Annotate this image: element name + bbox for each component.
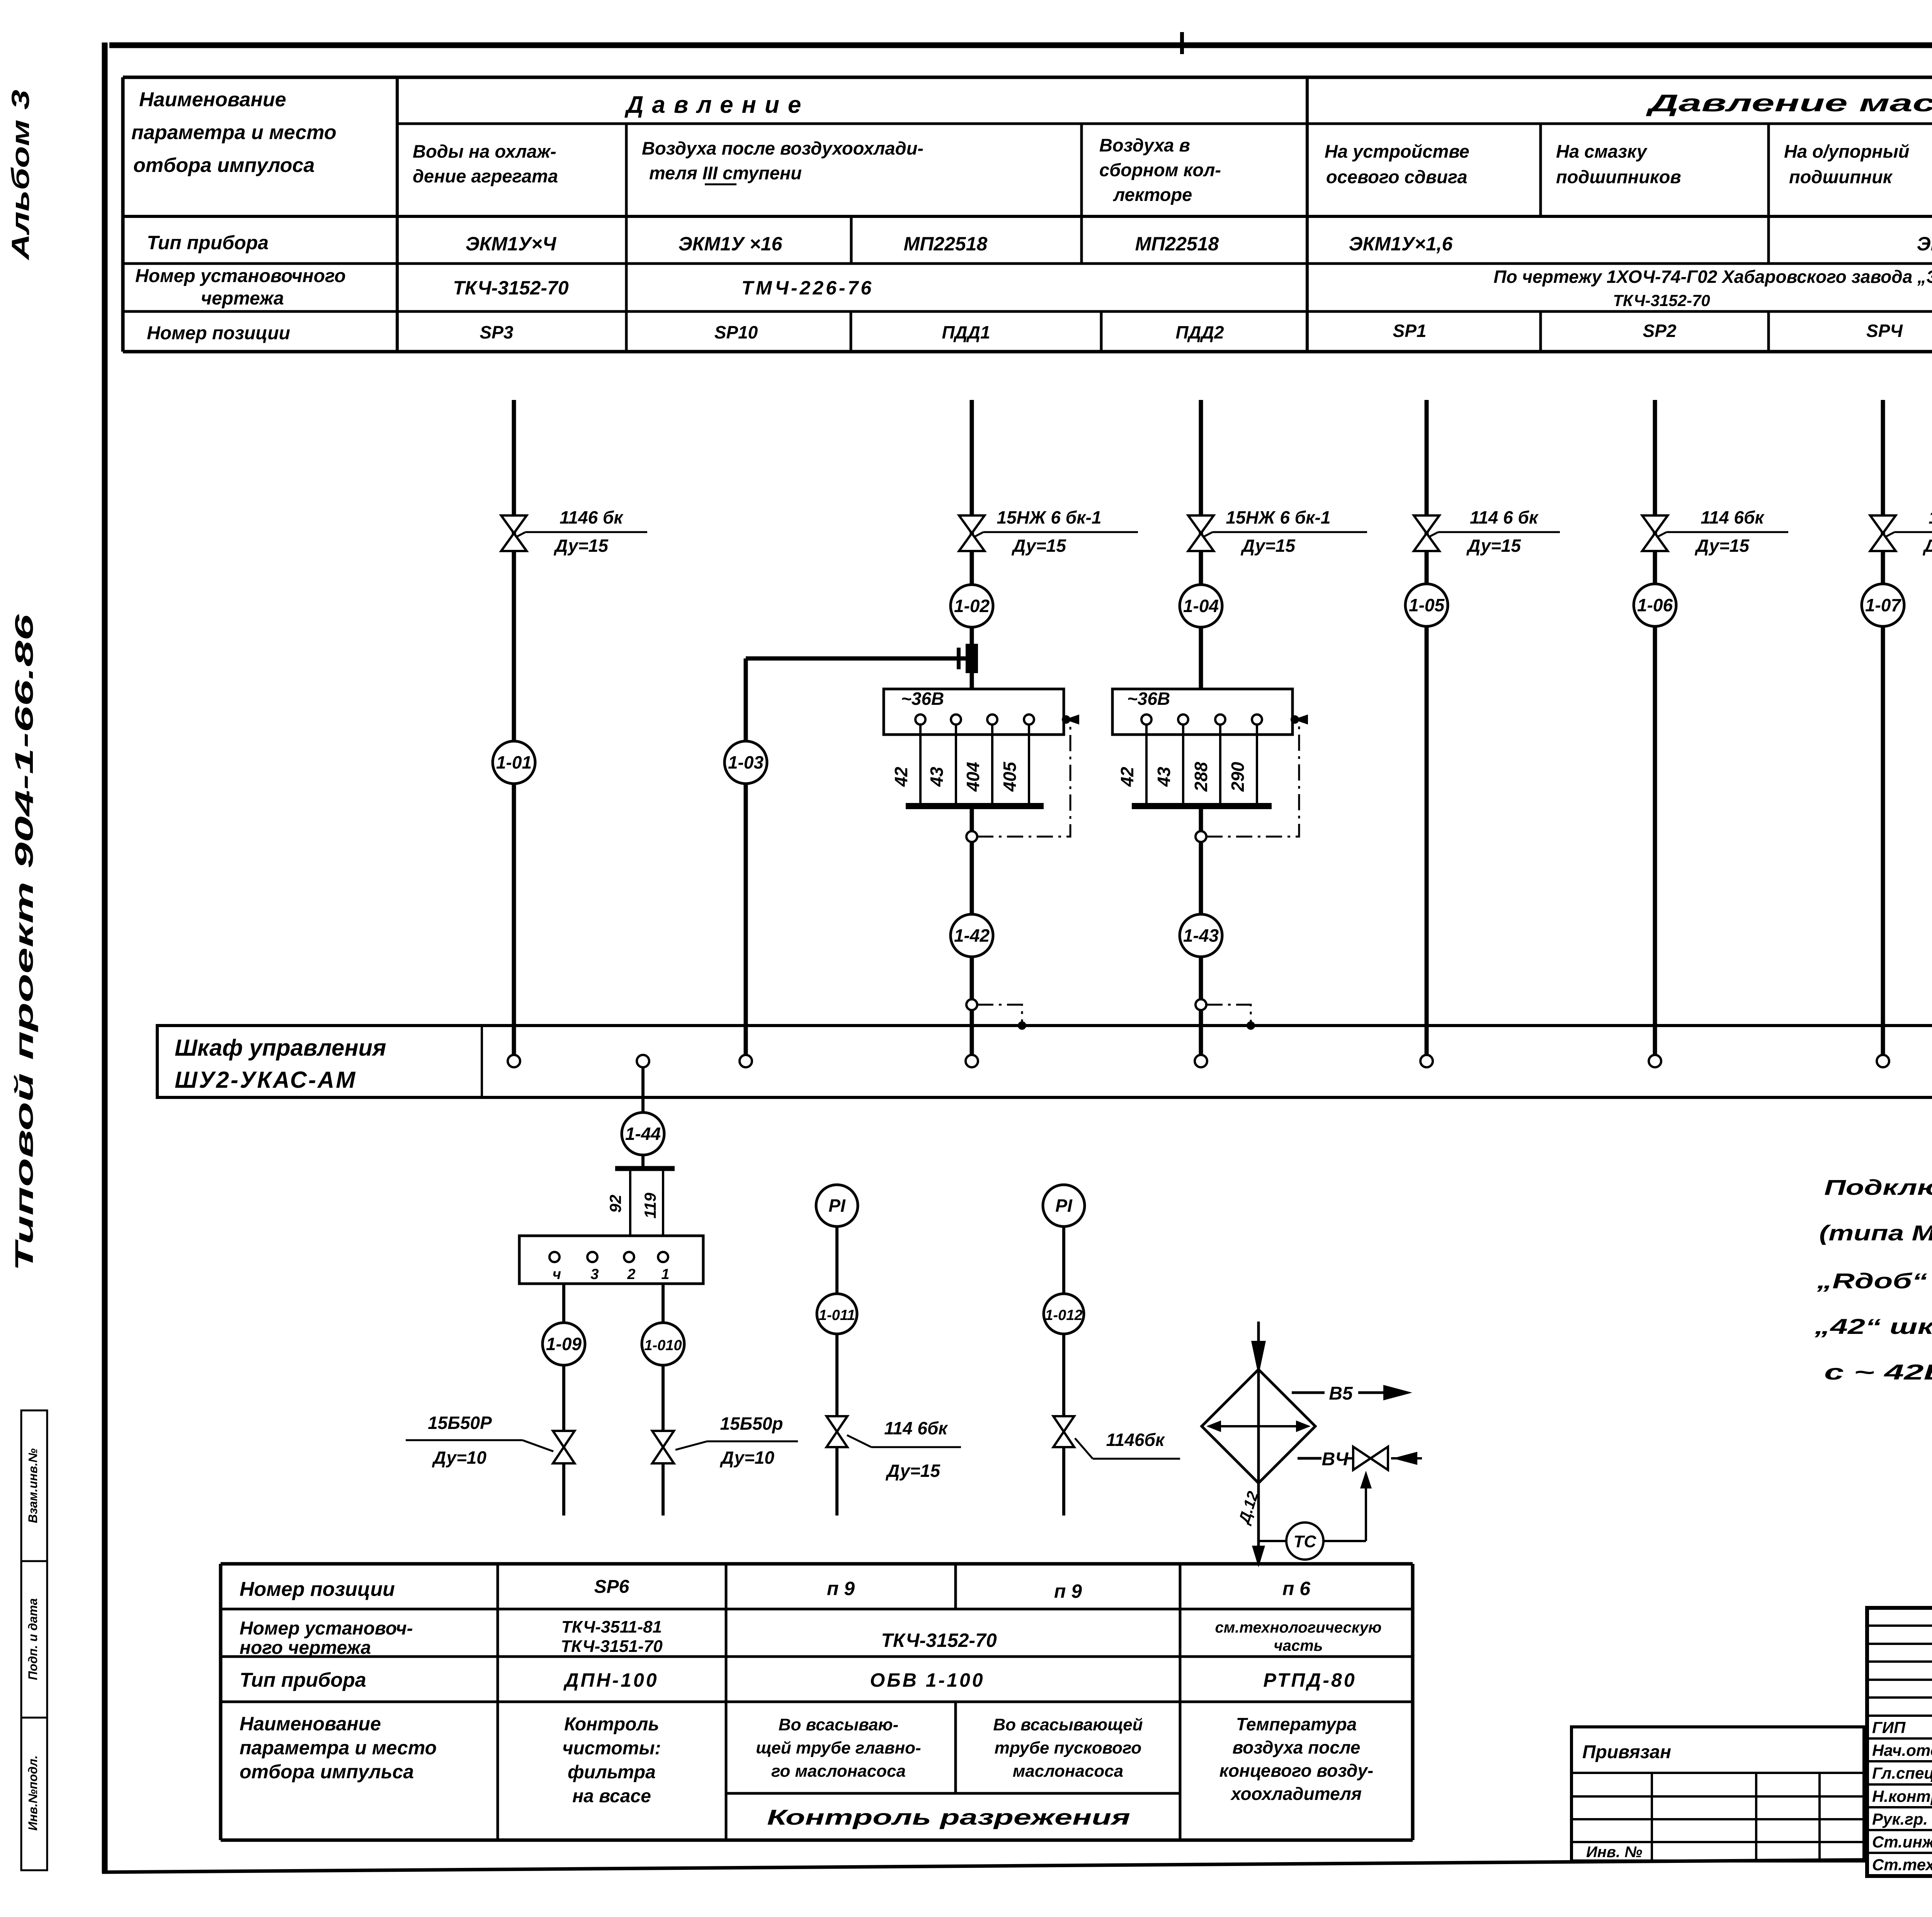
- svg-text:Ст.техник: Ст.техник: [1872, 1856, 1932, 1874]
- svg-text:ТКЧ-3511-81: ТКЧ-3511-81: [561, 1618, 662, 1636]
- svg-text:42: 42: [891, 767, 911, 787]
- svg-text:1-02: 1-02: [954, 596, 990, 616]
- svg-text:на всасе: на всасе: [572, 1786, 651, 1806]
- svg-text:На устройстве: На устройстве: [1325, 141, 1469, 162]
- svg-text:Воды на охлаж-: Воды на охлаж-: [413, 141, 556, 162]
- svg-text:42: 42: [1117, 767, 1137, 787]
- svg-text:В5: В5: [1329, 1383, 1353, 1404]
- svg-text:1-012: 1-012: [1045, 1307, 1082, 1323]
- svg-text:По чертежу 1ХОЧ-74-Г02 Хабаров: По чертежу 1ХОЧ-74-Г02 Хабаровского заво…: [1493, 267, 1932, 287]
- svg-text:SР2: SР2: [1643, 321, 1677, 341]
- svg-text:PI: PI: [1055, 1196, 1073, 1216]
- svg-text:SР3: SР3: [480, 322, 514, 342]
- svg-text:ЭКМ1У×1,6: ЭКМ1У×1,6: [1349, 233, 1453, 255]
- svg-text:ЭКМ 1У×10: ЭКМ 1У×10: [1917, 233, 1932, 255]
- svg-text:SР1: SР1: [1393, 321, 1427, 341]
- svg-text:15НЖ 6 бк-1: 15НЖ 6 бк-1: [997, 507, 1102, 527]
- svg-text:хоохладителя: хоохладителя: [1230, 1784, 1362, 1804]
- svg-text:ТКЧ-3151-70: ТКЧ-3151-70: [561, 1637, 663, 1656]
- svg-text:~36В: ~36В: [1127, 689, 1170, 709]
- svg-text:фильтра: фильтра: [568, 1762, 656, 1783]
- svg-text:чистоты:: чистоты:: [562, 1738, 661, 1759]
- svg-text:теля III ступени: теля III ступени: [649, 163, 802, 183]
- svg-text:ТКЧ-3152-70: ТКЧ-3152-70: [881, 1630, 997, 1651]
- svg-text:Наименование: Наименование: [139, 88, 286, 111]
- svg-text:Ду=15: Ду=15: [885, 1461, 940, 1481]
- svg-text:404: 404: [963, 762, 983, 792]
- svg-text:Давление: Давление: [624, 92, 810, 118]
- svg-text:Ду=10: Ду=10: [432, 1448, 486, 1468]
- svg-text:Наименование: Наименование: [240, 1713, 381, 1735]
- svg-text:ТС: ТС: [1294, 1532, 1317, 1551]
- svg-text:114 6бк: 114 6бк: [1929, 507, 1932, 527]
- svg-text:с ~ 42В до ~ 36В.: с ~ 42В до ~ 36В.: [1824, 1360, 1932, 1384]
- svg-text:ТМЧ-226-76: ТМЧ-226-76: [742, 277, 874, 299]
- svg-text:„Rдоб“ типа МЛТ-2, R = 43 Ом,: „Rдоб“ типа МЛТ-2, R = 43 Ом, подключенн…: [1816, 1269, 1932, 1293]
- svg-text:см.технологическую: см.технологическую: [1215, 1619, 1381, 1636]
- svg-text:Во всасываю-: Во всасываю-: [779, 1715, 899, 1734]
- svg-text:114 6 бк: 114 6 бк: [1470, 507, 1539, 527]
- svg-text:Ст.инж.: Ст.инж.: [1872, 1833, 1932, 1851]
- svg-text:43: 43: [1154, 767, 1174, 787]
- svg-text:Привязан: Привязан: [1582, 1742, 1671, 1762]
- svg-text:119: 119: [641, 1192, 659, 1219]
- svg-text:осевого сдвига: осевого сдвига: [1326, 167, 1468, 187]
- svg-text:подшипник: подшипник: [1789, 167, 1893, 187]
- svg-text:1-42: 1-42: [954, 925, 990, 946]
- svg-text:Ду=15: Ду=15: [1466, 536, 1521, 556]
- svg-text:ЭКМ1У×Ч: ЭКМ1У×Ч: [466, 233, 557, 255]
- svg-text:PI: PI: [828, 1196, 846, 1216]
- svg-text:Контроль: Контроль: [564, 1714, 659, 1735]
- svg-text:Альбом 3: Альбом 3: [7, 90, 34, 261]
- svg-text:отбора импульса: отбора импульса: [240, 1761, 414, 1783]
- svg-text:288: 288: [1191, 762, 1211, 792]
- svg-text:1146бк: 1146бк: [1106, 1430, 1165, 1450]
- svg-text:15Б50р: 15Б50р: [720, 1414, 783, 1434]
- svg-text:Воздуха в: Воздуха в: [1099, 135, 1190, 155]
- svg-text:1-011: 1-011: [819, 1307, 855, 1323]
- svg-text:1-05: 1-05: [1409, 595, 1445, 615]
- svg-text:п 9: п 9: [827, 1578, 855, 1599]
- svg-text:Ду=10: Ду=10: [719, 1448, 774, 1468]
- svg-text:Температура: Температура: [1236, 1714, 1357, 1734]
- svg-text:Инв.№подл.: Инв.№подл.: [26, 1755, 40, 1831]
- svg-text:1146 бк: 1146 бк: [560, 507, 624, 527]
- svg-text:ного чертежа: ного чертежа: [240, 1638, 371, 1658]
- svg-text:1-01: 1-01: [496, 752, 532, 772]
- svg-text:1-06: 1-06: [1637, 595, 1673, 615]
- svg-text:часть: часть: [1274, 1637, 1323, 1654]
- svg-text:ДПН-100: ДПН-100: [563, 1669, 658, 1691]
- svg-text:РТПД-80: РТПД-80: [1263, 1669, 1356, 1691]
- svg-text:Ду=15: Ду=15: [1694, 536, 1750, 556]
- svg-text:1: 1: [661, 1266, 669, 1283]
- svg-text:Контроль разрежения: Контроль разрежения: [767, 1805, 1130, 1829]
- svg-text:114 6бк: 114 6бк: [884, 1418, 948, 1438]
- svg-text:ГИП: ГИП: [1872, 1718, 1906, 1737]
- svg-text:Ду=15: Ду=15: [1011, 536, 1066, 556]
- svg-text:Н.контр.: Н.контр.: [1872, 1787, 1932, 1805]
- svg-text:Шкаф управления: Шкаф управления: [175, 1035, 386, 1061]
- svg-text:воздуха после: воздуха после: [1233, 1737, 1361, 1757]
- svg-text:290: 290: [1228, 762, 1248, 792]
- svg-text:(типа МП22518) выполнить через: (типа МП22518) выполнить через добавочны…: [1819, 1221, 1932, 1245]
- svg-text:Типовой проект 904-1-66.86: Типовой проект 904-1-66.86: [10, 614, 38, 1271]
- svg-text:МП22518: МП22518: [904, 233, 988, 255]
- svg-text:На о/упорный: На о/упорный: [1784, 141, 1909, 162]
- svg-text:114 6бк: 114 6бк: [1701, 507, 1765, 527]
- svg-text:Тип прибора: Тип прибора: [240, 1669, 366, 1691]
- svg-text:43: 43: [927, 767, 947, 787]
- svg-text:щей трубе главно-: щей трубе главно-: [756, 1738, 921, 1757]
- svg-text:1-09: 1-09: [546, 1334, 582, 1354]
- svg-text:трубе пускового: трубе пускового: [995, 1738, 1141, 1757]
- svg-text:чертежа: чертежа: [201, 288, 284, 309]
- svg-text:ШУ2-УКАС-АМ: ШУ2-УКАС-АМ: [175, 1067, 357, 1093]
- svg-text:1-010: 1-010: [644, 1337, 682, 1354]
- svg-text:маслонасоса: маслонасоса: [1013, 1762, 1124, 1781]
- svg-text:параметра и место: параметра и место: [240, 1737, 437, 1759]
- svg-text:15НЖ 6 бк-1: 15НЖ 6 бк-1: [1226, 507, 1331, 527]
- svg-text:1-03: 1-03: [728, 752, 764, 772]
- svg-text:Ду=15: Ду=15: [553, 536, 609, 556]
- svg-text:п 9: п 9: [1054, 1580, 1082, 1602]
- svg-text:Номер установоч-: Номер установоч-: [240, 1618, 413, 1639]
- svg-text:лекторе: лекторе: [1113, 184, 1192, 205]
- svg-text:отбора импулоса: отбора импулоса: [133, 154, 315, 177]
- svg-text:МП22518: МП22518: [1135, 233, 1219, 255]
- svg-text:Инв. №: Инв. №: [1586, 1844, 1642, 1861]
- svg-text:ч: ч: [553, 1266, 561, 1283]
- svg-text:го маслонасоса: го маслонасоса: [771, 1762, 906, 1781]
- svg-text:1-44: 1-44: [625, 1124, 661, 1144]
- svg-text:92: 92: [606, 1195, 624, 1213]
- svg-text:15Б50Р: 15Б50Р: [428, 1413, 492, 1433]
- svg-text:Подключение питания ~ 36В к пр: Подключение питания ~ 36В к приборам поз…: [1824, 1175, 1932, 1199]
- svg-text:ТКЧ-3152-70: ТКЧ-3152-70: [1613, 291, 1710, 310]
- svg-text:405: 405: [1000, 761, 1020, 792]
- svg-text:SР10: SР10: [714, 322, 758, 342]
- svg-text:2: 2: [627, 1266, 635, 1283]
- svg-text:~36В: ~36В: [901, 689, 944, 709]
- svg-text:Ду=15: Ду=15: [1240, 536, 1296, 556]
- svg-text:ОБВ 1-100: ОБВ 1-100: [870, 1669, 985, 1691]
- svg-text:ТКЧ-3152-70: ТКЧ-3152-70: [453, 277, 569, 299]
- svg-text:дение агрегата: дение агрегата: [413, 166, 558, 186]
- svg-text:„42“ шкафа ШУ2-УКАС-АМ для уме: „42“ шкафа ШУ2-УКАС-АМ для уменьшения на…: [1814, 1314, 1932, 1339]
- svg-text:Ду=15: Ду=15: [1922, 536, 1932, 556]
- svg-text:1-07: 1-07: [1865, 595, 1901, 615]
- svg-text:Взам.инв.№: Взам.инв.№: [26, 1448, 40, 1523]
- svg-text:Воздуха после воздухоохлади-: Воздуха после воздухоохлади-: [642, 138, 923, 158]
- svg-text:ПДД2: ПДД2: [1175, 322, 1224, 342]
- svg-text:Нач.отд.: Нач.отд.: [1872, 1741, 1932, 1759]
- svg-text:концевого возду-: концевого возду-: [1219, 1761, 1374, 1781]
- svg-text:ВЧ: ВЧ: [1322, 1449, 1349, 1470]
- svg-text:Номер позиции: Номер позиции: [147, 323, 290, 344]
- svg-text:Подп. и дата: Подп. и дата: [26, 1598, 40, 1680]
- svg-text:Номер установочного: Номер установочного: [135, 266, 346, 286]
- svg-text:подшипников: подшипников: [1556, 167, 1681, 187]
- svg-text:1-43: 1-43: [1183, 925, 1219, 946]
- svg-text:п 6: п 6: [1282, 1578, 1311, 1599]
- svg-text:На смазку: На смазку: [1556, 141, 1648, 162]
- svg-text:Во всасывающей: Во всасывающей: [993, 1715, 1143, 1734]
- svg-text:ЭКМ1У ×16: ЭКМ1У ×16: [679, 233, 783, 255]
- svg-text:Давление масла: Давление масла: [1645, 90, 1932, 117]
- svg-text:SР6: SР6: [594, 1577, 629, 1597]
- svg-text:1-04: 1-04: [1183, 596, 1219, 616]
- svg-text:3: 3: [590, 1266, 599, 1283]
- svg-text:Номер позиции: Номер позиции: [240, 1578, 395, 1601]
- svg-text:SРЧ: SРЧ: [1866, 321, 1903, 341]
- svg-text:сборном кол-: сборном кол-: [1099, 160, 1221, 180]
- svg-text:Рук.гр.: Рук.гр.: [1872, 1810, 1928, 1828]
- svg-text:Гл.спец.: Гл.спец.: [1872, 1764, 1932, 1782]
- svg-text:ПДД1: ПДД1: [942, 322, 990, 342]
- svg-text:Тип прибора: Тип прибора: [147, 232, 269, 253]
- svg-text:параметра и место: параметра и место: [131, 121, 337, 144]
